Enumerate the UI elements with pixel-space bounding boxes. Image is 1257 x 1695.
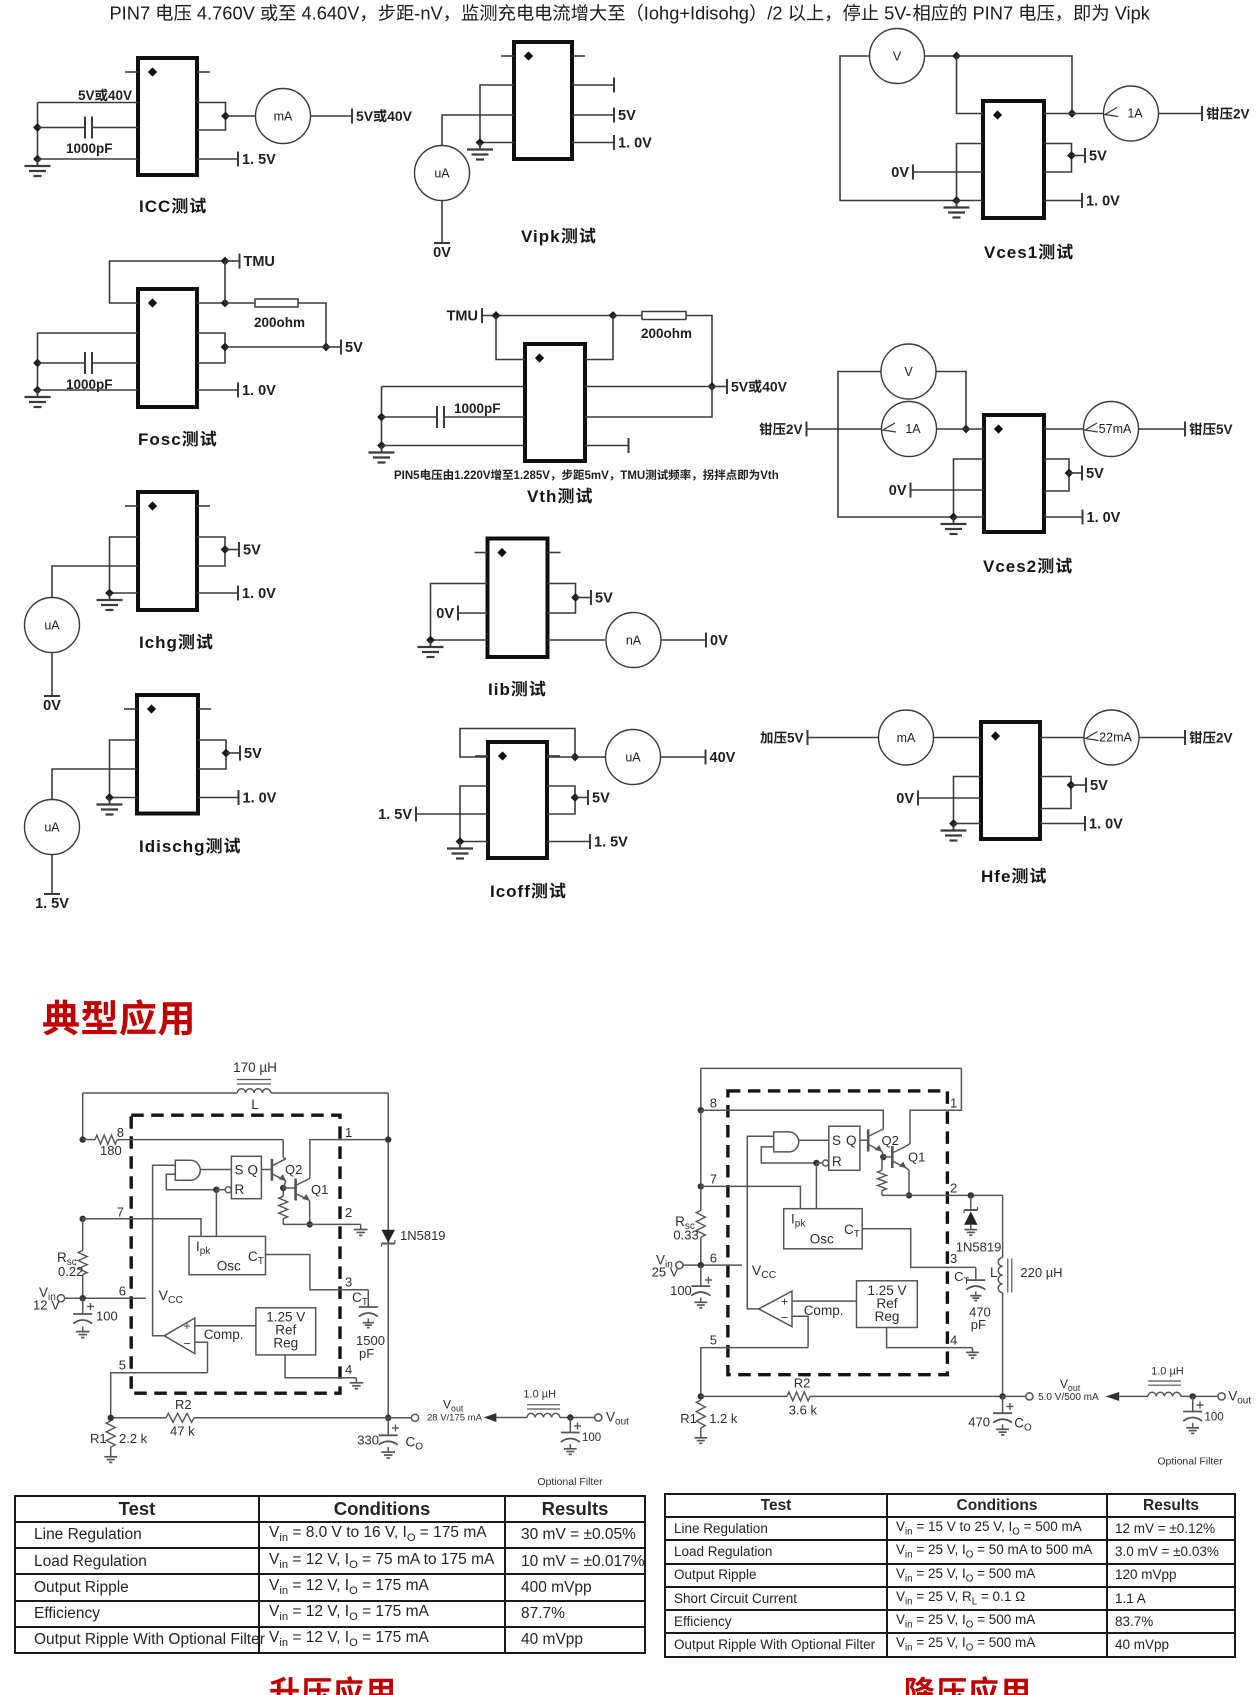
svg-text:0V: 0V [891,165,909,181]
wire (Vipk 5V pin) [572,114,614,116]
voltmeter V (Vces2) [881,344,936,399]
wire (Fosc pin4 row) [38,389,139,391]
svg-text:CT: CT [954,1269,969,1287]
junction (Idischg 5V tap) [222,749,231,758]
junction (R input node) [213,1187,219,1193]
svg-text:Vout: Vout [443,1398,464,1414]
wire (Q to Q2 base) [261,1169,272,1171]
section heading 典型应用 [0,990,260,1050]
wire (pin7 row, buck) [701,1186,801,1208]
wire (uA to 0V) [51,653,53,696]
table buck test results [664,1493,1236,1658]
wire (R node to Osc, buck) [815,1163,817,1209]
note text (Vth procedure) [394,469,779,482]
wire (Hfe left pin loop) [954,777,982,824]
label Icoff test [490,882,566,901]
wire (left rail pin8-pin7, buck) [700,1110,702,1210]
svg-text:1A: 1A [905,422,921,436]
svg-text:TMU: TMU [620,470,645,482]
wire (CT out to pin3, buck) [862,1229,976,1268]
ground (input cap, boost) [82,1327,84,1332]
wire (Rsc section of left rail) [78,1219,87,1298]
wire (Vth bottom right pin) [585,445,629,447]
ground (Co, buck) [1002,1425,1004,1430]
wire (2V clamp to 1A meter) [807,428,883,430]
svg-text:Comp.: Comp. [204,1327,244,1342]
junction (Fosc osc node) [221,299,230,308]
terminal 5V (Vces1) [1084,148,1086,163]
ground (CT cap, buck) [975,1292,977,1296]
node label 5V/40V (ICC supply) [78,88,132,103]
svg-text:3: 3 [950,1251,957,1266]
junction (Vth cap row) [377,413,386,422]
IC U11 (Hfe test) [981,722,1040,839]
wire (ref to pin4) [285,1355,356,1378]
label Fosc test [138,430,216,449]
svg-text:1.0 µH: 1.0 µH [523,1389,556,1401]
svg-text:0.33: 0.33 [673,1228,698,1243]
svg-text:2.2 k: 2.2 k [119,1431,148,1446]
junction (filter cap node, boost) [567,1414,573,1420]
wire (5V tap to bar) [576,597,592,599]
wire (comp - to pin5, buck) [792,1316,808,1347]
junction (pin2 node) [307,1221,313,1227]
svg-text:−: − [183,1337,190,1351]
wire (Fosc right loop) [197,333,225,363]
junction (diode node, buck) [968,1192,974,1198]
svg-text:Osc: Osc [217,1259,241,1274]
wire (top node down to pin1) [957,56,984,114]
wire (to mA meter) [226,115,256,117]
svg-text:1N5819: 1N5819 [956,1240,1002,1255]
terminal 2V clamp (Hfe) [1184,730,1186,745]
wire (Q2 emitter to node, buck) [882,1152,883,1158]
wire (0V to pin) [458,612,488,614]
svg-text:22mA: 22mA [1099,731,1132,745]
svg-text:PIN7: PIN7 [973,3,1014,24]
wire (node to Q1 base) [283,1187,295,1189]
svg-text:5V-: 5V- [884,3,911,24]
label Hfe test [981,867,1046,886]
svg-text:40V: 40V [387,108,413,124]
svg-text:4: 4 [950,1333,957,1348]
ground (input cap, buck) [700,1298,702,1303]
terminal 2V clamp (Vces1) [1201,106,1203,121]
resistor 200ohm (Fosc) [254,299,305,330]
capacitor 100uF input (boost) [73,1298,118,1323]
wire (Fosc pin2 row) [38,332,139,334]
terminal 5V (Vces2) [1081,466,1083,481]
svg-text:1.220V: 1.220V [454,470,491,482]
ammeter nA (Iib) [606,613,661,668]
terminal unlabeled (Vth) [628,438,630,453]
wire (comp + to ref) [195,1325,256,1327]
svg-text:2: 2 [950,1181,957,1196]
svg-text:PIN7: PIN7 [110,3,151,24]
svg-text:Ichg: Ichg [139,633,178,652]
wire (Hfe bottom row) [954,823,982,825]
svg-text:1000pF: 1000pF [66,141,113,156]
wire (Icoff top loop) [460,729,575,758]
wire (Q2 emitter to node) [283,1181,286,1188]
svg-text:4.640V: 4.640V [302,3,361,24]
ammeter 1A (Vces2) [882,402,937,457]
terminal 1.0V (Vipk) [613,135,615,150]
IC U10 (Icoff test) [488,742,547,858]
svg-text:1. 0V: 1. 0V [242,383,276,399]
oscillator block (buck) [784,1209,863,1249]
resistor R2 3.6k (buck) [701,1376,1003,1418]
wire (Q1 collector to pin1) [310,1140,388,1177]
svg-text:100: 100 [670,1283,692,1298]
wire (buck top rail) [701,1067,962,1069]
wire (Ichg 1.0V pin) [197,592,238,594]
svg-text:ICC: ICC [139,197,171,216]
svg-text:1.0 µH: 1.0 µH [1151,1366,1184,1378]
junction (pin6 node) [80,1295,86,1301]
svg-text:2V: 2V [786,422,803,437]
svg-text:2: 2 [345,1205,352,1220]
svg-text:Vth: Vth [527,487,557,506]
svg-text:1. 5V: 1. 5V [35,896,69,912]
svg-text:1. 0V: 1. 0V [1089,817,1123,833]
svg-text:+: + [781,1295,788,1309]
terminal (Vipk unlabeled) [613,78,615,93]
terminal 0V (Vces2) [910,483,912,498]
svg-text:1N5819: 1N5819 [400,1228,446,1243]
terminal 5V (Hfe) [1085,778,1087,793]
svg-text:0V: 0V [433,245,451,261]
wire (boost top rail) [83,1092,389,1094]
wire (Vth left bus) [381,387,383,446]
wire (Iib 5V loop) [548,584,576,614]
svg-text:1A: 1A [1127,107,1143,121]
wire (Vth pin row right) [585,386,712,388]
svg-text:Q2: Q2 [882,1133,899,1148]
svg-text:6: 6 [119,1284,126,1299]
inductor L 220uH (buck) [990,1195,1063,1396]
oscillator block (boost) [189,1236,266,1274]
svg-text:1. 5V: 1. 5V [242,152,276,168]
svg-text:pF: pF [359,1346,374,1361]
svg-text:L: L [251,1097,259,1112]
terminal 1.5V (Icoff left) [415,807,417,822]
wire (Q1 emitter down, buck) [906,1168,909,1195]
junction (Vces2 pin1 node) [962,425,971,434]
wire (ICC pin 1.5V) [197,158,238,160]
svg-text:5: 5 [710,1333,717,1348]
svg-text:0V: 0V [43,698,61,714]
svg-text:470: 470 [968,1415,990,1430]
svg-text:5.0 V/500 mA: 5.0 V/500 mA [1038,1392,1099,1403]
svg-text:L: L [990,1265,998,1280]
svg-text:Optional Filter: Optional Filter [1157,1456,1223,1468]
svg-text:R1: R1 [680,1411,697,1426]
capacitor 100uF input (buck) [670,1265,712,1298]
svg-text:5V: 5V [1089,149,1107,165]
wire (R down to supply node) [686,316,712,387]
wire (pin2 row) [283,1223,361,1225]
label Iib test [488,680,545,699]
wire (Iib left loop) [431,584,488,641]
wire (5V source to mA) [808,737,879,739]
terminal 0V (Ichg source) [44,695,60,697]
Vin terminal (boost) [33,1285,65,1313]
wire (Vout stub) [388,1417,411,1419]
wire (Fosc 1.0V pin) [197,389,238,391]
svg-text:220 µH: 220 µH [1020,1265,1062,1280]
svg-text:5V: 5V [618,108,636,124]
wire (5V tap to bar) [1071,784,1086,786]
junction (pin7 node) [80,1216,86,1222]
Vin terminal (buck) [652,1253,683,1280]
terminal 5V/40V (ICC output) [351,109,353,124]
svg-text:Optional Filter: Optional Filter [537,1476,603,1488]
wire (pin7 row) [83,1219,201,1237]
svg-text:2V: 2V [1233,107,1250,122]
svg-text:1000pF: 1000pF [454,401,501,416]
junction (Iib 5V tap) [571,593,580,602]
svg-text:nA: nA [626,634,642,648]
output terminal Vout filtered (buck) [1218,1389,1251,1407]
wire (R node to R input, buck) [816,1162,822,1164]
wire (Icoff left loop) [460,786,488,842]
svg-text:mA: mA [897,731,916,745]
svg-text:0V: 0V [889,483,907,499]
terminal 1.0V (Fosc) [237,383,239,398]
junction (Vth TMU left node) [492,311,501,320]
wire (Vth bottom row) [382,445,526,447]
svg-text:Comp.: Comp. [804,1303,844,1318]
svg-text:6: 6 [710,1251,717,1266]
junction (Fosc gnd row) [33,386,42,395]
wire (mA meter to terminal) [311,115,352,117]
ground (Iib) [430,640,432,647]
wire (CT out to pin3) [266,1255,369,1290]
svg-text:5V: 5V [243,543,261,559]
comparator (boost) [164,1318,195,1354]
ground (pin4, boost) [355,1378,357,1383]
wire (Vipk pin top right) [572,84,614,86]
ammeter 22mA (Hfe) [1084,710,1139,765]
IC U8 (Iib test) [488,539,548,658]
resistor 180 (boost pin8) [83,1135,122,1158]
svg-text:100: 100 [96,1309,118,1324]
junction (Fosc loop tap) [221,343,230,352]
svg-text:8: 8 [710,1096,717,1111]
wire (Vces1 1.0V pin) [1044,200,1082,202]
terminal 1.0V (Hfe) [1084,816,1086,831]
transistor Q1 (boost) [296,1179,329,1201]
wire (bus to C3) [382,416,438,418]
svg-text:100: 100 [1205,1412,1224,1424]
svg-text:0V: 0V [436,606,454,622]
wire (comp + to ref, buck) [792,1300,857,1302]
svg-text:Vipk: Vipk [1115,3,1151,24]
wire (osc node vertical) [224,261,226,303]
svg-text:Osc: Osc [810,1232,834,1247]
wire (loop tap to 5V node) [225,346,326,348]
svg-text:40V: 40V [710,750,736,766]
junction (Vces1 gnd node) [952,196,961,205]
AND gate (buck) [774,1132,799,1152]
wire (Q1 collector up, buck) [906,1144,910,1146]
IC U6 (Vces2 test) [984,415,1044,532]
junction (R1-R2 node) [108,1415,114,1421]
resistor R1 2.2k (boost) [90,1421,148,1452]
wire (supply node to bar) [712,386,727,388]
junction (Vth TMU right node) [609,311,618,320]
wire (Vin to pin6) [65,1297,146,1299]
terminal 5V (Fosc) [340,340,342,355]
junction (Ichg 5V tap) [221,545,230,554]
ammeter uA (Ichg) [25,598,80,653]
terminal 5V (Ichg) [238,542,240,557]
resistor (Q2 emitter, buck) [878,1157,887,1195]
svg-text:5V: 5V [1216,422,1233,437]
wire (ICC pin2 to 5V/40V bus) [38,102,139,104]
wire (comparator output to AND, buck) [747,1136,773,1309]
svg-text:V: V [904,365,913,379]
svg-text:5V: 5V [592,791,610,807]
svg-text:VCC: VCC [752,1262,777,1281]
wire (Vces2 left pin loop) [954,459,985,517]
junction (Idischg gnd node) [105,793,114,802]
svg-text:R1: R1 [90,1431,107,1446]
IC U9 (Idischg test) [137,695,198,814]
wire (Vces2 left branch) [838,372,952,518]
wire (Q1 collector up) [309,1176,311,1178]
wire (Vipk pin to uA meter) [442,115,514,146]
output terminal Vout filtered (boost) [595,1410,629,1428]
svg-text:R: R [832,1154,842,1169]
ammeter 57mA (Vces2) [1084,402,1139,457]
wire (Icoff 5V loop) [547,786,575,814]
capacitor C3 1000pF (Vth) [437,401,525,428]
label Vth test [527,487,592,506]
wire (5V tap to bar) [226,752,240,754]
wire (Vipk left loop) [480,85,514,143]
resistor R1 1.2k (buck) [680,1400,738,1433]
ammeter uA (Idischg) [25,800,80,855]
wire (AND output to S, buck) [799,1139,829,1141]
filter capacitor 100 (buck) [1183,1396,1223,1423]
wire (Ichg left loop) [110,537,139,593]
capacitor CT 1500pF (boost) [356,1290,385,1361]
svg-text:R2: R2 [175,1397,192,1412]
svg-text:5V: 5V [1086,466,1104,482]
terminal 0V (Iib) [457,606,459,621]
wire (pin5 row) [111,1373,208,1418]
wire (1A meter to terminal) [1159,113,1202,115]
wire (pin8 row, buck) [701,1110,884,1129]
wire (Vces1 pin4 row) [957,200,984,202]
wire (ICC left bus) [37,103,39,160]
svg-text:Q: Q [846,1133,857,1148]
svg-text:1: 1 [950,1096,957,1111]
svg-text:pF: pF [971,1317,986,1332]
svg-text:0V: 0V [896,791,914,807]
IC U5 (Vth test) [525,344,585,461]
svg-text:0V: 0V [710,633,728,649]
svg-text:40V: 40V [762,379,788,395]
terminal 0V (Iib out) [705,633,707,648]
label ICC test [139,197,206,216]
terminal 1.5V (Icoff right) [589,834,591,849]
1.25V reference block (boost) [256,1308,316,1355]
svg-text:Vces1: Vces1 [984,243,1038,262]
ground (Ichg) [109,593,111,600]
junction (pin7 node, buck) [698,1183,704,1189]
wire (Iib pin to nA meter) [548,639,606,641]
svg-text:5V: 5V [595,591,613,607]
wire (R node to Osc) [215,1190,217,1237]
comparator (buck) [759,1291,792,1327]
terminal 1.0V (Vces1) [1081,193,1083,208]
wire (top node to right drop) [957,56,1073,114]
AND gate (boost) [175,1160,200,1180]
output terminal Vout 5.0V (buck) [1026,1377,1099,1403]
label Idischg test [139,837,240,856]
svg-text:uA: uA [44,821,60,835]
wire (IC to 57mA meter) [1044,428,1084,430]
terminal 1.0V (Ichg) [237,586,239,601]
svg-text:7: 7 [117,1205,124,1220]
transistor Q1 (buck) [892,1146,925,1168]
junction (Icoff uA node) [571,753,580,762]
terminal 0V (Hfe) [917,791,919,806]
junction (Vces2 gnd node) [949,513,958,522]
terminal 5V/40V (Vth) [726,379,728,394]
resistor R2 47k (boost) [111,1397,389,1439]
wire (uA meter to 0V) [441,200,443,243]
wire (ICC pin4 row) [38,158,139,160]
svg-text:0.22: 0.22 [58,1264,83,1279]
terminal 0V (Vces1) [912,165,914,180]
wire (Vth pin5 row left) [382,386,526,388]
junction (pin1 node) [385,1136,391,1142]
svg-text:5V: 5V [78,88,95,103]
svg-text:7: 7 [710,1172,717,1187]
wire (boost left rail) [82,1093,84,1140]
wire (comparator output to AND) [153,1165,176,1336]
svg-text:28 V/175 mA: 28 V/175 mA [427,1413,483,1424]
filter inductor 1.0uH (boost) [523,1389,594,1418]
wire (Vipk 1.0V pin) [572,142,614,144]
svg-text:4.760V: 4.760V [197,3,256,24]
svg-text:5: 5 [119,1358,126,1373]
wire (Q2 collector up, buck) [882,1129,883,1131]
wire (bus to C2) [38,362,86,364]
svg-text:Vout: Vout [1060,1377,1081,1393]
junction (Vout node, boost) [385,1415,391,1421]
wire (Fosc left bus) [37,333,39,390]
junction (Vipk gnd) [476,138,485,147]
junction (TMU node) [221,257,230,266]
svg-text:180: 180 [100,1143,122,1158]
svg-text:1. 0V: 1. 0V [618,136,652,152]
svg-text:1. 0V: 1. 0V [242,586,276,602]
junction (ICC meter tap) [221,112,230,121]
wire (5V tap to bar) [225,549,239,551]
terminal 0V (Vipk source) [434,242,450,244]
junction (Icoff gnd node) [456,837,465,846]
wire (1A meter to IC) [936,428,984,430]
wire (Idischg 1.0V pin) [198,797,239,799]
terminal 1.5V (ICC) [237,152,239,167]
header note text [110,3,1151,24]
junction (Icoff 5V tap) [571,793,580,802]
